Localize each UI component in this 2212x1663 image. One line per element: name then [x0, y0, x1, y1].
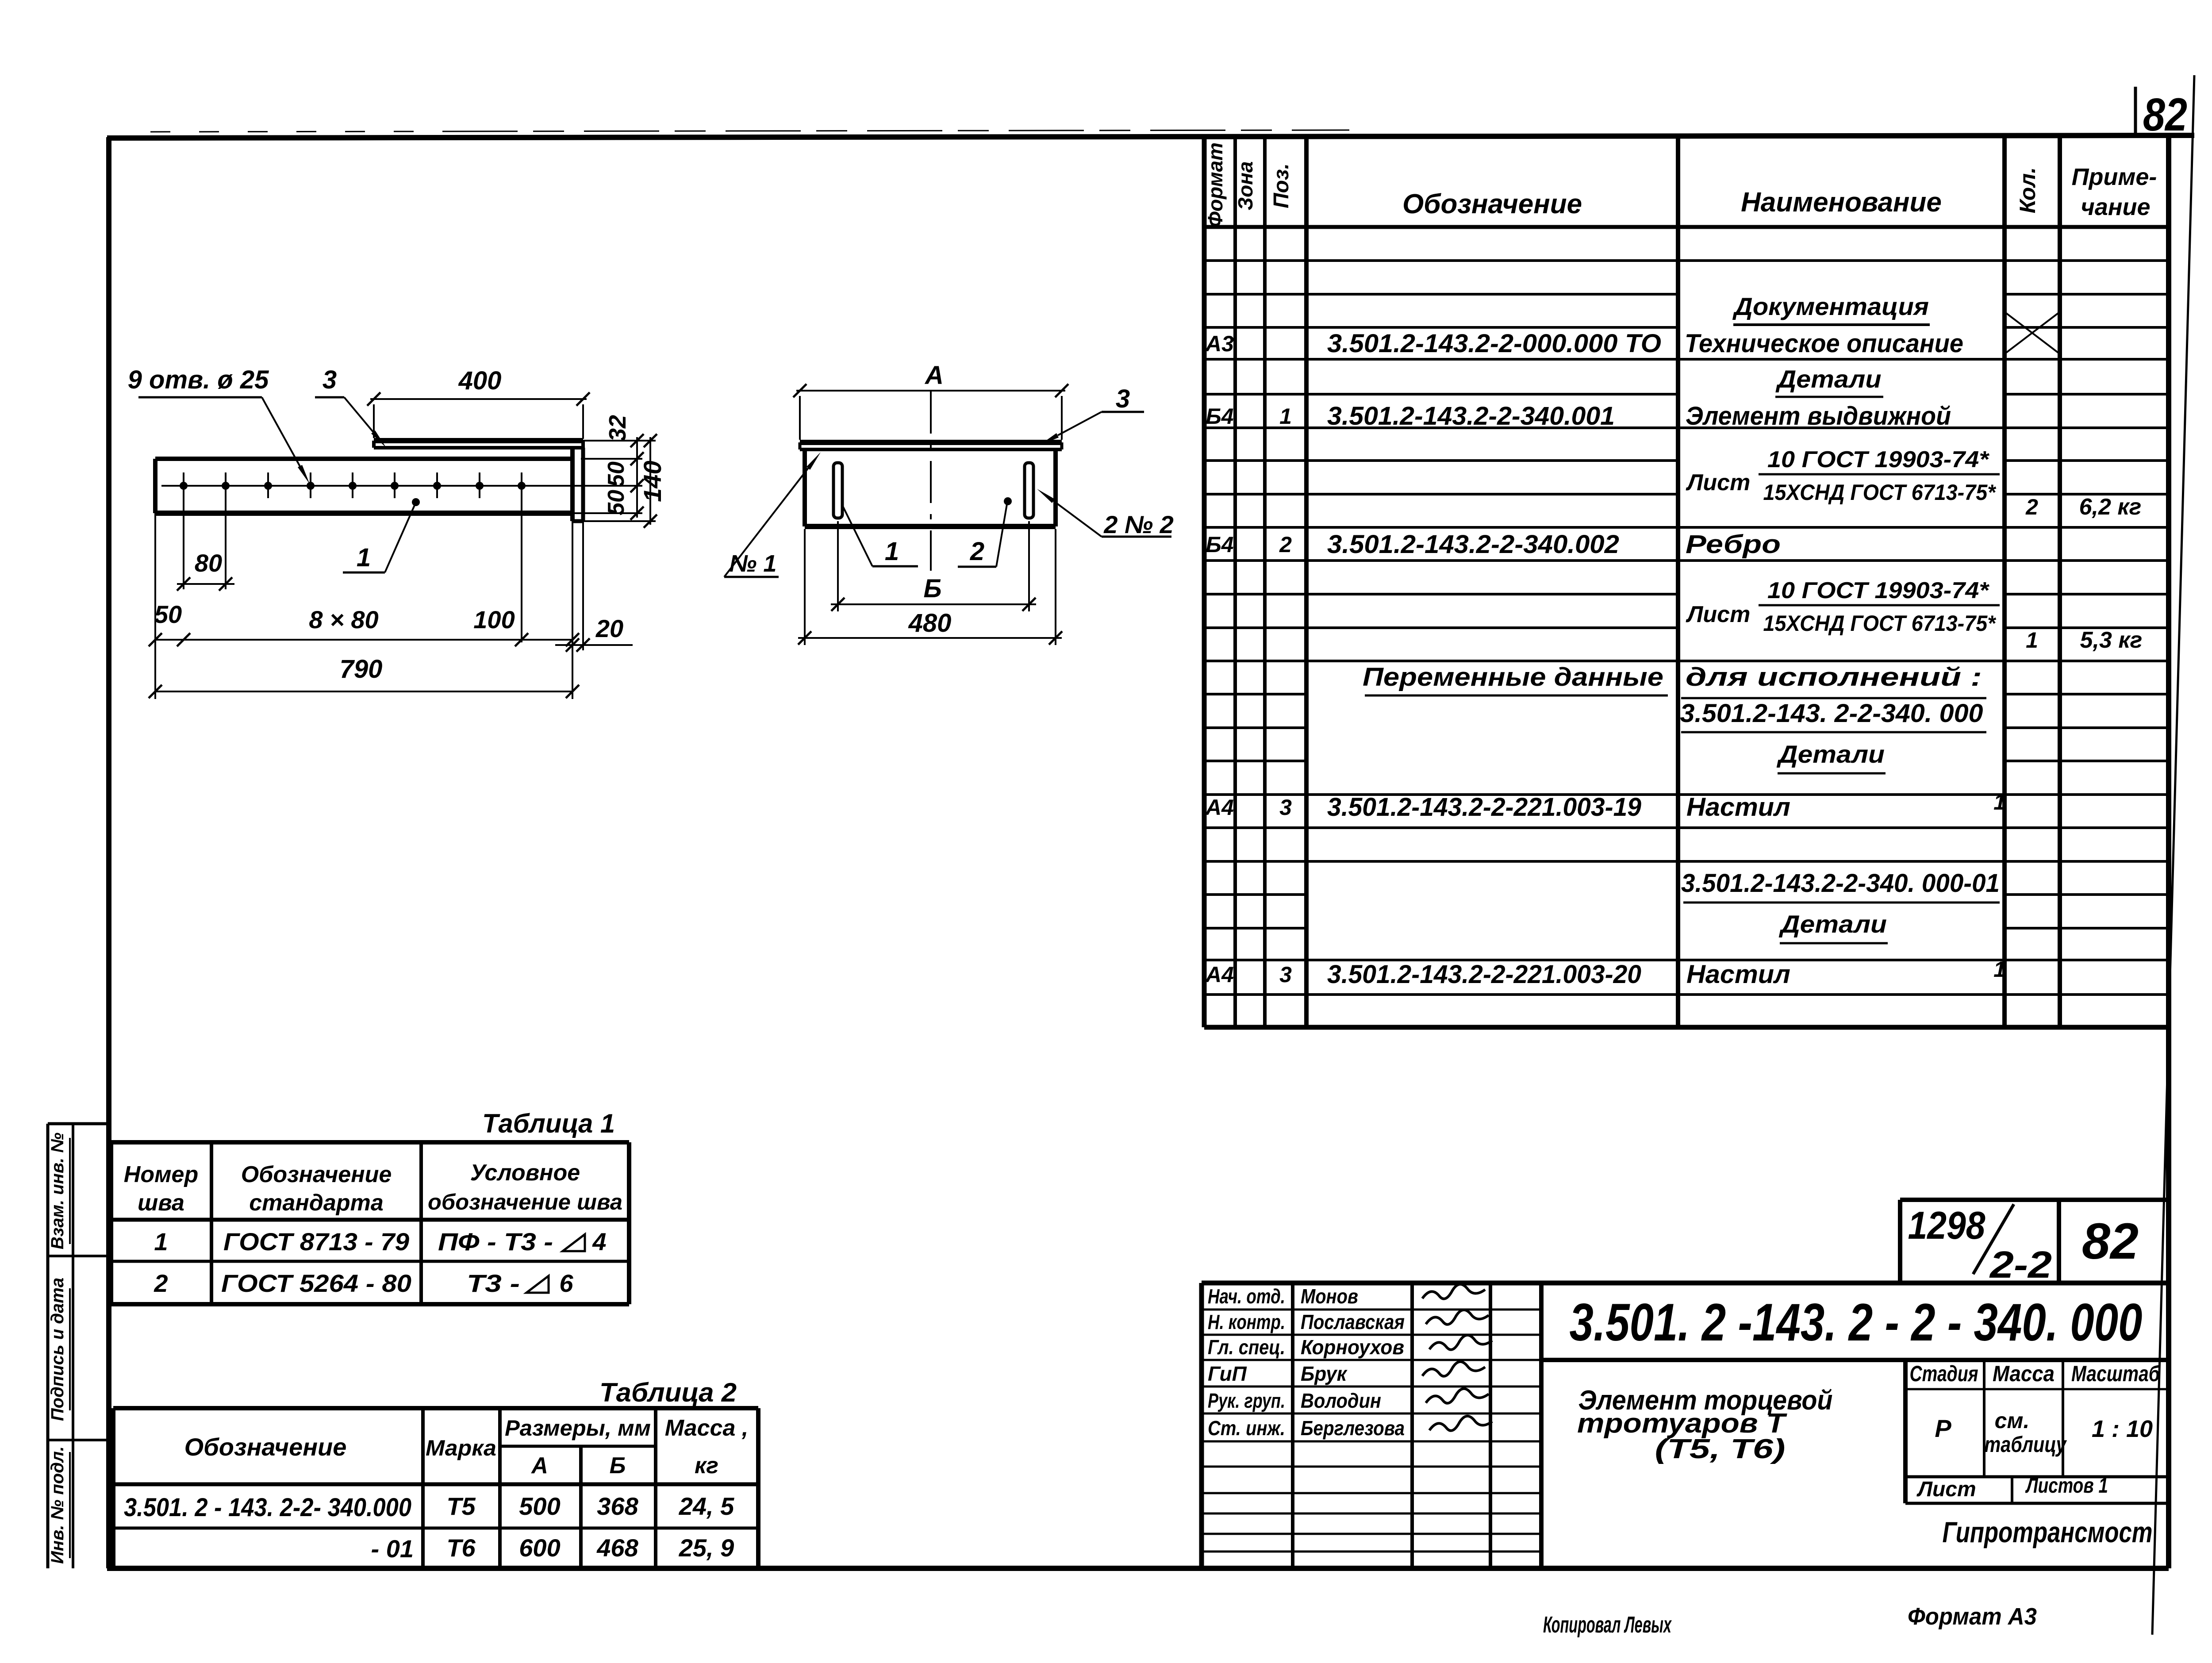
svg-text:3.501.2-143.2-2-221.003-20: 3.501.2-143.2-2-221.003-20 — [1327, 960, 1641, 989]
scan page right edge artifact — [2152, 75, 2194, 1635]
table 1 outer border — [111, 1140, 629, 1145]
svg-text:Взам. инв. №: Взам. инв. № — [48, 1133, 67, 1249]
svg-text:Рук. груп.: Рук. груп. — [1208, 1389, 1285, 1412]
svg-text:Таблица 1: Таблица 1 — [482, 1109, 615, 1138]
svg-text:ГиП: ГиП — [1208, 1362, 1247, 1385]
svg-text:Т3 -: Т3 - — [467, 1269, 520, 1297]
drawing frame border right — [2166, 135, 2171, 1568]
svg-text:1: 1 — [357, 543, 371, 572]
svg-text:чание: чание — [2081, 194, 2150, 220]
svg-text:1 : 10: 1 : 10 — [2092, 1416, 2153, 1442]
svg-text:Наименование: Наименование — [1741, 187, 1942, 218]
svg-text:2 № 2: 2 № 2 — [1103, 511, 1174, 538]
svg-text:Поз.: Поз. — [1270, 163, 1293, 208]
svg-text:2: 2 — [2025, 495, 2038, 519]
svg-text:Ст. инж.: Ст. инж. — [1208, 1417, 1285, 1440]
svg-text:А3: А3 — [1205, 331, 1234, 356]
specification table row grid lines — [1204, 259, 1306, 262]
svg-text:Масса ,: Масса , — [665, 1415, 749, 1441]
svg-text:ПФ - Т3 -: ПФ - Т3 - — [438, 1228, 553, 1256]
svg-text:Нач. отд.: Нач. отд. — [1208, 1285, 1285, 1308]
svg-text:10 ГОСТ 19903-74*: 10 ГОСТ 19903-74* — [1767, 578, 1990, 603]
svg-text:Брук: Брук — [1301, 1362, 1348, 1385]
svg-text:Корноухов: Корноухов — [1301, 1336, 1404, 1359]
title block signature columns — [1291, 1283, 1294, 1568]
view1 dim 32/50/50 stack — [636, 437, 638, 518]
svg-text:Номер: Номер — [124, 1162, 198, 1187]
svg-text:шва: шва — [138, 1190, 184, 1216]
svg-text:Масштаб: Масштаб — [2071, 1361, 2161, 1386]
svg-text:15ХСНД ГОСТ 6713-75*: 15ХСНД ГОСТ 6713-75* — [1763, 480, 1997, 505]
svg-text:3.501.2-143.2-2-340. 000-01: 3.501.2-143.2-2-340. 000-01 — [1681, 869, 2000, 898]
svg-text:Гл. спец.: Гл. спец. — [1208, 1336, 1285, 1359]
table 1 inner lines — [111, 1218, 629, 1222]
svg-text:5,3 кг: 5,3 кг — [2080, 627, 2143, 653]
svg-text:Ребро: Ребро — [1686, 530, 1781, 559]
specification table bottom line — [1204, 1025, 2169, 1030]
view2 weld mark No1 — [724, 468, 808, 577]
list / listov row — [1905, 1475, 2169, 1479]
big designation box — [1541, 1358, 2169, 1362]
svg-text:24, 5: 24, 5 — [679, 1492, 734, 1520]
svg-text:3.501. 2 -143. 2 - 2 - 340. 00: 3.501. 2 -143. 2 - 2 - 340. 000 — [1570, 1293, 2143, 1352]
svg-text:Марка: Марка — [426, 1436, 496, 1460]
svg-text:8 × 80: 8 × 80 — [309, 606, 378, 634]
svg-text:Р: Р — [1935, 1414, 1951, 1442]
svg-text:82: 82 — [2082, 1213, 2139, 1270]
1298/2-2 and 82 boxes above title block — [1898, 1200, 1902, 1283]
svg-text:10 ГОСТ 19903-74*: 10 ГОСТ 19903-74* — [1767, 447, 1990, 472]
view1 holes centerline — [161, 485, 642, 487]
view1 dim 400 — [370, 398, 587, 400]
svg-text:480: 480 — [908, 609, 952, 638]
svg-text:4: 4 — [592, 1228, 606, 1256]
svg-text:А: А — [530, 1453, 548, 1479]
view1 bar outline (element vydvizhnoj pos.1) — [155, 457, 572, 461]
svg-text:Монов: Монов — [1301, 1285, 1358, 1308]
svg-text:2: 2 — [1279, 532, 1292, 557]
svg-text:Пославская: Пославская — [1301, 1310, 1405, 1333]
svg-text:Формат А3: Формат А3 — [1908, 1603, 2037, 1630]
svg-text:32: 32 — [604, 415, 631, 442]
signature squiggles — [1422, 1284, 1485, 1299]
table 2 column lines — [421, 1408, 425, 1568]
view1 dim chain 50 / 8x80 / 100 — [155, 639, 572, 641]
view2 dim A — [796, 390, 1065, 392]
svg-text:2: 2 — [970, 537, 984, 566]
svg-text:600: 600 — [519, 1534, 560, 1562]
svg-text:Детали: Детали — [1777, 740, 1885, 768]
svg-text:Подпись и дата: Подпись и дата — [48, 1278, 67, 1421]
svg-text:1: 1 — [154, 1228, 168, 1256]
svg-text:1: 1 — [1993, 957, 2006, 982]
svg-text:1298: 1298 — [1908, 1203, 1985, 1247]
svg-text:50: 50 — [603, 461, 629, 487]
drawing frame border left — [106, 137, 111, 1568]
title text area divider — [1903, 1360, 1908, 1503]
svg-text:1: 1 — [885, 537, 899, 566]
svg-text:1: 1 — [1279, 404, 1292, 429]
crossed-out Kol cell — [2005, 312, 2060, 354]
svg-text:3.501.2-143.2-2-340.001: 3.501.2-143.2-2-340.001 — [1327, 402, 1615, 430]
svg-text:Формат: Формат — [1204, 142, 1227, 227]
svg-text:3.501.2-143.2-2-340.002: 3.501.2-143.2-2-340.002 — [1327, 530, 1619, 559]
svg-text:Элемент выдвижной: Элемент выдвижной — [1686, 402, 1951, 430]
left attachment strip box — [46, 1124, 50, 1568]
svg-text:Б: Б — [923, 574, 941, 603]
svg-text:стандарта: стандарта — [249, 1190, 383, 1216]
title block left border — [1199, 1283, 1204, 1568]
svg-text:3.501.2-143. 2-2-340. 000: 3.501.2-143. 2-2-340. 000 — [1680, 699, 1983, 728]
svg-text:15ХСНД ГОСТ 6713-75*: 15ХСНД ГОСТ 6713-75* — [1763, 611, 1997, 636]
view1 top plate (nastil pos.3) — [374, 438, 583, 443]
view2 dim 480 — [798, 637, 1062, 639]
svg-text:1: 1 — [1993, 790, 2006, 814]
svg-text:Масса: Масса — [1993, 1361, 2055, 1386]
table 2 outer border — [113, 1406, 758, 1410]
svg-text:400: 400 — [458, 366, 502, 395]
view2 left slot — [833, 463, 842, 518]
svg-text:Б: Б — [610, 1453, 626, 1479]
svg-text:Берглезова: Берглезова — [1301, 1417, 1405, 1440]
stadia massa masshtab header — [1905, 1388, 2169, 1390]
svg-text:Кол.: Кол. — [2015, 167, 2040, 213]
svg-text:790: 790 — [340, 655, 383, 684]
svg-text:25, 9: 25, 9 — [679, 1534, 734, 1562]
svg-text:кг: кг — [695, 1453, 718, 1479]
view1 nine holes d25 — [180, 482, 188, 490]
svg-text:Таблица 2: Таблица 2 — [599, 1378, 737, 1407]
svg-text:Н. контр.: Н. контр. — [1208, 1310, 1285, 1333]
svg-text:Зона: Зона — [1234, 161, 1257, 210]
scan artifact dashed line top — [150, 131, 434, 132]
svg-text:Володин: Володин — [1301, 1389, 1381, 1412]
title block signature rows — [1202, 1309, 1541, 1311]
svg-text:Листов 1: Листов 1 — [2025, 1474, 2108, 1498]
view1 dim 790 — [155, 691, 572, 692]
svg-text:А4: А4 — [1205, 795, 1234, 820]
svg-text:Детали: Детали — [1779, 910, 1887, 938]
svg-text:- 01: - 01 — [371, 1535, 414, 1563]
svg-text:(Т5, Т6): (Т5, Т6) — [1655, 1434, 1786, 1464]
svg-text:6,2 кг: 6,2 кг — [2079, 494, 2142, 520]
svg-text:Лист: Лист — [1686, 470, 1751, 495]
svg-text:Детали: Детали — [1775, 365, 1881, 393]
svg-text:Обозначение: Обозначение — [241, 1162, 392, 1187]
svg-text:Б4: Б4 — [1206, 532, 1233, 557]
svg-text:3: 3 — [1116, 384, 1130, 413]
svg-text:Т6: Т6 — [446, 1534, 476, 1562]
view1 dim 80 — [177, 583, 234, 585]
table 2 row lines — [113, 1482, 758, 1486]
view2 right slot — [1025, 463, 1033, 518]
drawing frame border bottom — [107, 1566, 2169, 1571]
svg-text:9 отв. ø 25: 9 отв. ø 25 — [128, 365, 269, 394]
view1 dim 20 — [555, 644, 633, 646]
svg-text:3.501.2-143.2-2-221.003-19: 3.501.2-143.2-2-221.003-19 — [1327, 793, 1641, 822]
svg-text:50: 50 — [603, 490, 629, 515]
svg-text:368: 368 — [597, 1492, 638, 1520]
view2 body outline — [803, 449, 807, 526]
svg-text:Т5: Т5 — [446, 1492, 476, 1520]
svg-text:500: 500 — [519, 1492, 560, 1520]
svg-text:Настил: Настил — [1686, 793, 1790, 822]
svg-text:Документация: Документация — [1732, 292, 1929, 320]
svg-text:ГОСТ 8713 - 79: ГОСТ 8713 - 79 — [223, 1228, 409, 1256]
svg-text:Гипротрансмост: Гипротрансмост — [1943, 1516, 2153, 1548]
drawing frame border top — [107, 135, 2194, 138]
svg-text:таблицу: таблицу — [1985, 1432, 2067, 1457]
svg-text:№ 1: № 1 — [730, 550, 777, 577]
page number 82 top right — [2134, 87, 2137, 137]
svg-text:обозначение шва: обозначение шва — [428, 1190, 622, 1214]
svg-text:3: 3 — [1279, 962, 1292, 987]
view1 dim 140 — [649, 437, 651, 525]
svg-text:80: 80 — [195, 549, 222, 577]
svg-text:3.501.2-143.2-2-000.000 ТО: 3.501.2-143.2-2-000.000 ТО — [1327, 329, 1661, 358]
specification table header bottom line — [1204, 225, 2169, 229]
svg-text:468: 468 — [596, 1534, 638, 1562]
svg-text:Копировал Левых: Копировал Левых — [1543, 1612, 1672, 1638]
svg-text:для исполнений :: для исполнений : — [1686, 663, 1982, 691]
specification table outer verticals — [1202, 135, 1207, 1027]
svg-text:140: 140 — [638, 461, 666, 502]
svg-text:1: 1 — [2026, 628, 2038, 653]
svg-text:Стадия: Стадия — [1910, 1361, 1978, 1386]
svg-text:А4: А4 — [1205, 962, 1234, 987]
svg-text:Обозначение: Обозначение — [184, 1433, 347, 1461]
title block top border — [1202, 1281, 2169, 1286]
svg-text:50: 50 — [154, 600, 182, 628]
svg-text:Переменные данные: Переменные данные — [1363, 663, 1663, 691]
svg-text:Лист: Лист — [1916, 1478, 1976, 1501]
svg-text:Техническое описание: Техническое описание — [1685, 329, 1963, 358]
svg-text:Обозначение: Обозначение — [1402, 189, 1582, 219]
svg-text:Условное: Условное — [470, 1160, 580, 1186]
svg-text:100: 100 — [473, 606, 515, 634]
svg-text:Инв. № подл.: Инв. № подл. — [48, 1446, 67, 1564]
svg-text:А: А — [924, 361, 944, 390]
view2 centerline (dash-dot) — [930, 392, 932, 571]
view1 end plate at right — [570, 448, 575, 521]
svg-text:82: 82 — [2143, 89, 2187, 141]
svg-text:Настил: Настил — [1686, 960, 1790, 989]
svg-text:2-2: 2-2 — [1989, 1244, 2052, 1286]
svg-text:20: 20 — [595, 615, 623, 642]
view2 dim B (between slots) — [831, 603, 1036, 605]
svg-text:Размеры, мм: Размеры, мм — [505, 1416, 651, 1440]
gipotransmost box — [1905, 1502, 2169, 1505]
svg-text:Б4: Б4 — [1206, 404, 1233, 429]
view2 top plate — [800, 440, 1062, 445]
svg-text:ГОСТ 5264 - 80: ГОСТ 5264 - 80 — [221, 1269, 411, 1297]
svg-text:Приме-: Приме- — [2072, 164, 2157, 190]
svg-text:3: 3 — [1279, 795, 1292, 820]
svg-text:6: 6 — [559, 1269, 573, 1297]
svg-text:2: 2 — [154, 1269, 168, 1297]
svg-text:Лист: Лист — [1686, 602, 1751, 627]
svg-text:3: 3 — [323, 365, 337, 394]
svg-text:3.501. 2 - 143. 2-2- 340.000: 3.501. 2 - 143. 2-2- 340.000 — [124, 1493, 411, 1522]
svg-text:см.: см. — [1995, 1408, 2030, 1433]
